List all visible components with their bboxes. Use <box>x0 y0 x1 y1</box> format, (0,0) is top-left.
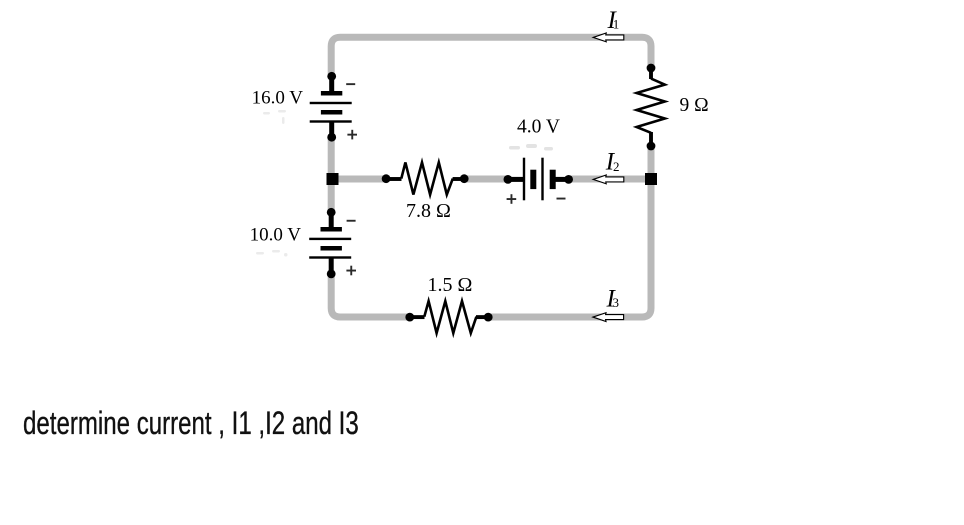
caption text <box>23 405 359 442</box>
ghost mark under 16.0 V <box>263 110 286 124</box>
svg-text:3: 3 <box>613 295 620 310</box>
svg-text:4.0 V: 4.0 V <box>517 117 560 138</box>
resistor R3 1.5 ohm <box>410 315 425 319</box>
label: minus of B3 <box>557 198 566 200</box>
wire: middle horizontal branch <box>331 176 651 183</box>
label I1 <box>607 7 620 34</box>
battery B1 16.0 V <box>310 72 352 142</box>
svg-text:1.5 Ω: 1.5 Ω <box>428 274 473 296</box>
label: plus of B1 <box>347 130 357 140</box>
label I3 <box>606 285 620 312</box>
resistor R1 7.8 ohm <box>386 177 401 181</box>
node: junction square right <box>645 173 657 185</box>
ghost mark under 4.0 V <box>509 144 553 151</box>
battery B3 4.0 V <box>504 158 573 201</box>
arrow I2 <box>593 175 624 184</box>
label: plus of B3 <box>507 194 517 204</box>
label: plus of B2 <box>346 266 356 276</box>
svg-text:2: 2 <box>613 159 620 174</box>
wire: outer circuit loop <box>331 37 651 317</box>
label: minus of B2 <box>347 220 356 222</box>
label: minus of B1 <box>346 83 355 85</box>
resistor R2 9 ohm <box>649 68 653 79</box>
svg-text:1: 1 <box>613 17 620 32</box>
node: junction square left <box>327 173 339 185</box>
ghost mark under 10.0 V <box>256 250 288 257</box>
svg-text:9 Ω: 9 Ω <box>680 95 709 116</box>
arrow I1 <box>593 33 624 42</box>
svg-text:16.0 V: 16.0 V <box>252 88 304 109</box>
svg-text:7.8 Ω: 7.8 Ω <box>406 200 451 222</box>
wire mask gaps (wire hidden behind components) <box>326 68 660 325</box>
arrow I3 <box>593 313 624 322</box>
battery B2 10.0 V <box>309 208 351 278</box>
svg-text:10.0 V: 10.0 V <box>250 225 302 246</box>
label I2 <box>605 149 620 176</box>
